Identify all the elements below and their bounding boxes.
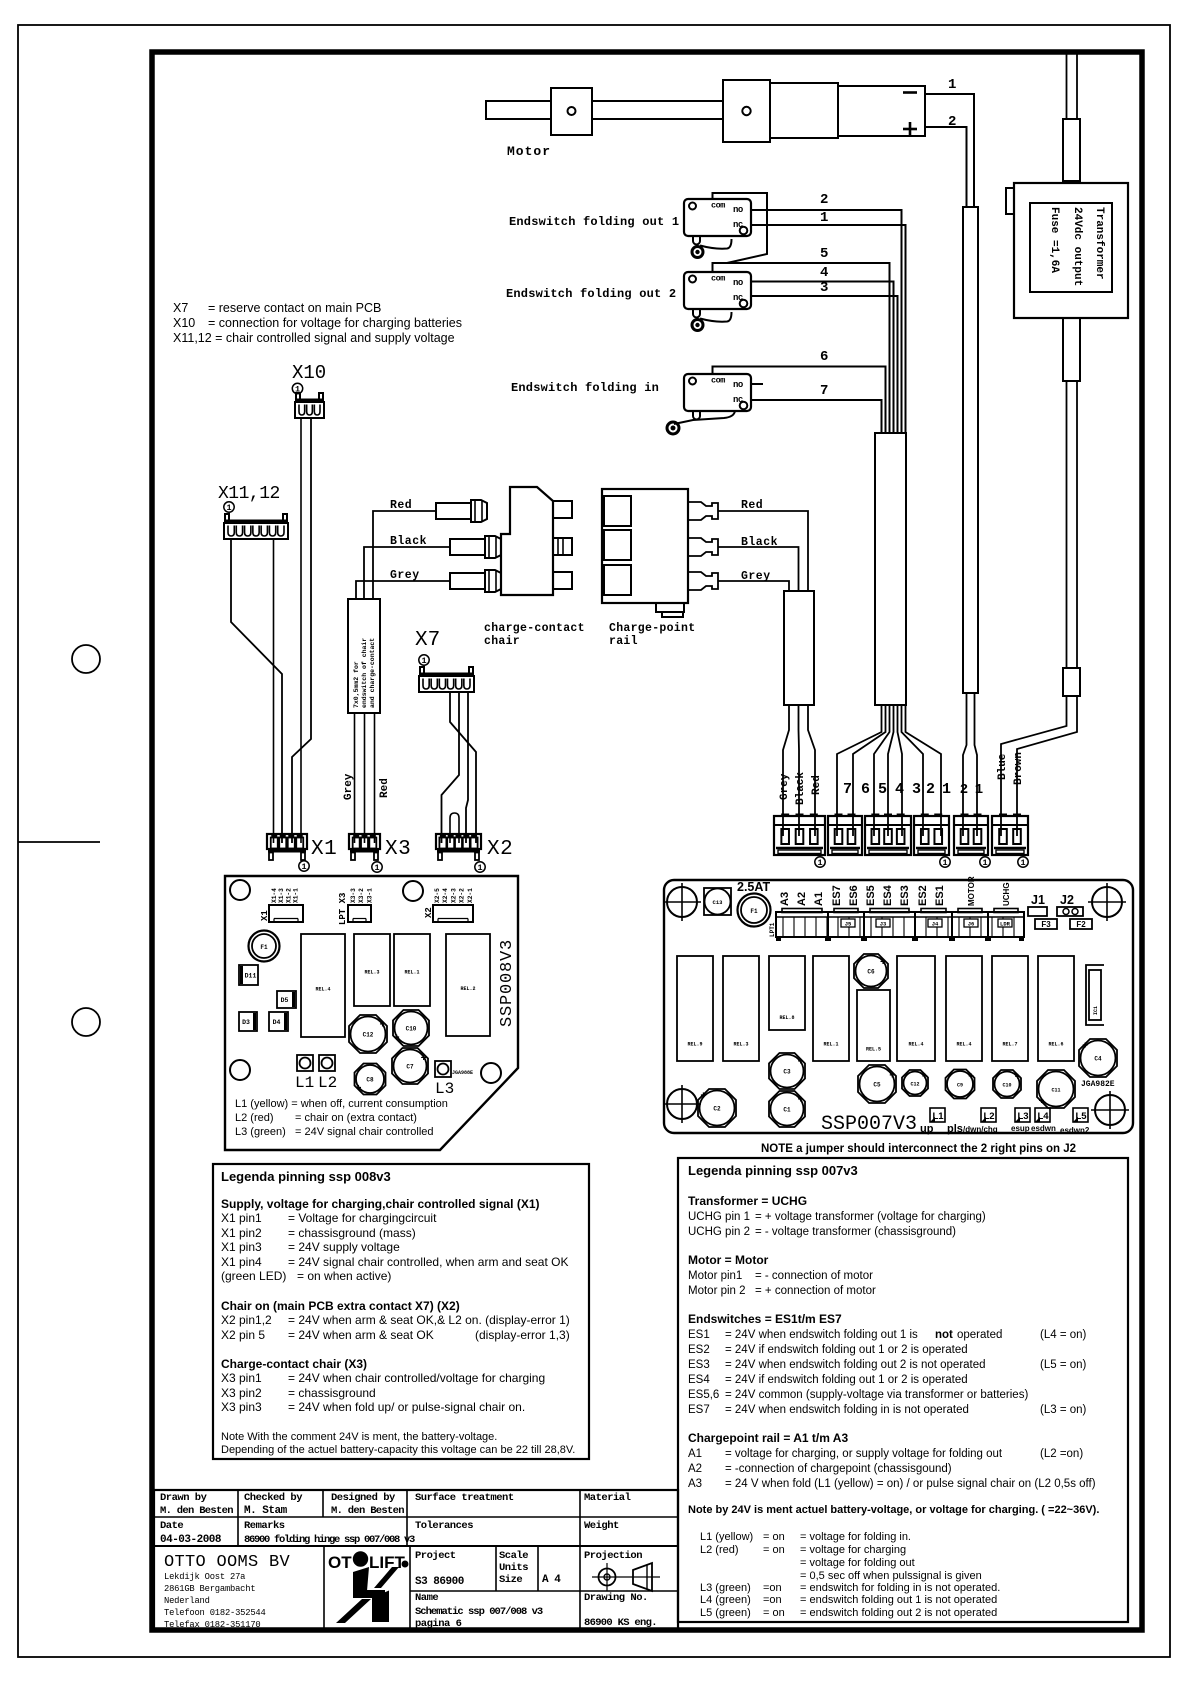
fuse F3 (1035, 919, 1057, 929)
svg-text:Motor: Motor (507, 144, 551, 159)
svg-text:(display-error 1,3): (display-error 1,3) (475, 1328, 570, 1342)
svg-text:Fuse =1,6A: Fuse =1,6A (1048, 207, 1060, 273)
svg-text:+: + (798, 1057, 804, 1068)
svg-text:= 24V when endswitch folding o: = 24V when endswitch folding out 1 is (725, 1329, 918, 1341)
svg-text:A 4: A 4 (542, 1574, 561, 1586)
svg-text:Telefax 0182-351170: Telefax 0182-351170 (164, 1620, 261, 1630)
svg-text:JGA988E: JGA988E (452, 1070, 473, 1076)
connector X2 (436, 834, 481, 849)
svg-text:S3 86900: S3 86900 (415, 1576, 464, 1588)
connector block motor 2 1 (954, 816, 988, 855)
LED L3 (435, 1061, 451, 1077)
svg-text:2.5AT: 2.5AT (737, 880, 770, 894)
svg-text:F2: F2 (1076, 920, 1086, 929)
svg-text:OTTO OOMS BV: OTTO OOMS BV (164, 1553, 291, 1572)
svg-text:= 24 V when fold (L1 (yellow): = 24 V when fold (L1 (yellow) = on) / or… (725, 1478, 1096, 1490)
svg-text:+: + (1082, 1041, 1088, 1052)
terminal strip (776, 912, 1024, 937)
svg-text:M. den Besten: M. den Besten (160, 1505, 233, 1517)
svg-text:X2 pin 5: X2 pin 5 (221, 1328, 265, 1342)
svg-text:Note by 24V is ment actuel ba: Note by 24V is ment actuel battery-volta… (688, 1504, 1099, 1516)
motor shaft middle (592, 101, 723, 119)
svg-text:7: 7 (820, 383, 828, 399)
wire Red to chair (373, 511, 436, 599)
stub endswitch3 no (751, 383, 763, 385)
svg-text:REL.4: REL.4 (908, 1041, 923, 1047)
wire X11,12 pin2 (273, 539, 275, 843)
cable sleeve endswitch bundle (875, 433, 906, 705)
svg-text:L2: L2 (318, 1074, 337, 1092)
relay REL3 pcb2 (723, 956, 759, 1061)
capacitor C2 (698, 1089, 736, 1127)
svg-text:rail: rail (609, 635, 638, 648)
chair plug red (436, 503, 471, 519)
chair plug black (450, 539, 485, 555)
svg-text:1: 1 (421, 656, 426, 666)
connector block Blue Brown (992, 816, 1028, 855)
svg-text:C12: C12 (363, 1032, 374, 1039)
svg-text:1: 1 (477, 863, 482, 873)
svg-text:X2: X2 (487, 838, 513, 861)
svg-text:5: 5 (878, 781, 887, 798)
svg-text:/dwn/chg: /dwn/chg (963, 1125, 998, 1134)
svg-text:Motor pin1: Motor pin1 (688, 1270, 742, 1282)
relay REL3 (354, 934, 390, 1006)
svg-text:MOTOR: MOTOR (967, 876, 976, 906)
motor cable sleeve (963, 207, 978, 693)
svg-text:+: + (889, 1072, 895, 1083)
svg-text:D11: D11 (245, 973, 257, 980)
svg-text:X2: X2 (424, 907, 434, 918)
svg-text:up: up (920, 1123, 934, 1135)
wire Brown (1017, 696, 1077, 836)
svg-text:com: com (711, 201, 725, 211)
svg-text:Date: Date (160, 1520, 183, 1532)
title block row3 dividers (323, 1546, 325, 1630)
svg-text:X1-2: X1-2 (285, 888, 292, 903)
svg-text:REL.3: REL.3 (733, 1041, 748, 1047)
relay REL1 pcb2 (813, 956, 849, 1061)
svg-text:+: + (394, 1034, 400, 1045)
wire rail Grey (718, 581, 789, 591)
svg-text:X3-2: X3-2 (358, 888, 365, 903)
svg-text:Black: Black (795, 772, 807, 805)
svg-text:LPT1: LPT1 (769, 922, 776, 937)
motor block 2 (723, 80, 770, 142)
svg-text:X2-5: X2-5 (434, 888, 441, 903)
svg-text:not: not (935, 1329, 953, 1341)
svg-text:pls: pls (947, 1123, 963, 1135)
svg-text:C12: C12 (910, 1082, 919, 1088)
svg-text:Size: Size (499, 1574, 522, 1586)
capacitor C1 (769, 1091, 805, 1127)
relay REL7 (992, 956, 1028, 1061)
svg-text:= endswitch for folding in is: = endswitch for folding in is not operat… (800, 1582, 1000, 1594)
svg-text:(L4 = on): (L4 = on) (1040, 1329, 1087, 1341)
svg-text:JGA982E: JGA982E (1081, 1080, 1115, 1089)
svg-text:Schematic ssp 007/008 v3: Schematic ssp 007/008 v3 (415, 1606, 543, 1618)
svg-text:LPT X3: LPT X3 (338, 893, 348, 925)
svg-text:= 24V if endswitch folding out: = 24V if endswitch folding out 1 or 2 is… (725, 1344, 968, 1356)
svg-text:2: 2 (820, 192, 828, 208)
relay REL8 (769, 956, 805, 1030)
svg-text:SSP007V3: SSP007V3 (821, 1113, 917, 1136)
svg-text:C7: C7 (406, 1064, 414, 1071)
svg-text:X1 pin2: X1 pin2 (221, 1226, 262, 1240)
svg-text:REL.9: REL.9 (687, 1041, 702, 1047)
svg-text:ES1: ES1 (934, 885, 946, 906)
svg-text:REL.8: REL.8 (779, 1015, 794, 1021)
svg-text:= 24V if endswitch folding out: = 24V if endswitch folding out 1 or 2 is… (725, 1374, 968, 1386)
svg-text:L3 (green): L3 (green) (235, 1126, 286, 1138)
svg-text:REL.4: REL.4 (956, 1041, 971, 1047)
svg-text:Endswitch folding out 2: Endswitch folding out 2 (506, 287, 676, 301)
jumper U on X2 pins 2-3 (450, 813, 459, 843)
diode D4 (269, 1012, 288, 1031)
svg-text:X1-3: X1-3 (278, 888, 285, 903)
capacitor C10 pcb2 (993, 1070, 1021, 1098)
svg-text:J3: J3 (880, 921, 887, 928)
svg-text:esdwn2: esdwn2 (1060, 1126, 1090, 1135)
svg-text:Chair on (main PCB extra conta: Chair on (main PCB extra contact X7) (X2… (221, 1299, 460, 1313)
svg-text:no: no (733, 205, 743, 215)
svg-text:3: 3 (820, 280, 828, 296)
svg-text:and charge-contact: and charge-contact (369, 638, 376, 708)
connector X1 (267, 834, 307, 849)
transformer cable bottom (1063, 318, 1080, 381)
battery (838, 86, 925, 136)
svg-text:REL.1: REL.1 (823, 1041, 838, 1047)
legend box ssp008v3 (213, 1164, 589, 1459)
OTOLIFT logo glyph (353, 1567, 369, 1594)
svg-text:J6: J6 (968, 921, 975, 928)
wire rail Red (718, 511, 808, 591)
svg-text:esdwn: esdwn (1031, 1124, 1056, 1133)
svg-text:X1 pin4: X1 pin4 (221, 1255, 262, 1269)
svg-text:endswitch of chair: endswitch of chair (361, 638, 368, 708)
svg-text:A2: A2 (688, 1463, 702, 1475)
svg-text:+: + (356, 1084, 362, 1095)
svg-text:= voltage for folding out: = voltage for folding out (800, 1557, 915, 1569)
svg-text:6: 6 (820, 349, 828, 365)
svg-text:Drawing No.: Drawing No. (584, 1592, 648, 1604)
svg-text:C10: C10 (1002, 1083, 1011, 1089)
svg-text:= + voltage transformer (volt: = + voltage transformer (voltage for cha… (755, 1211, 986, 1223)
binder hole top (72, 645, 100, 673)
svg-text:= 24V when arm & seat OK,& L2: = 24V when arm & seat OK,& L2 on. (displ… (288, 1313, 570, 1327)
wire 6 endswitch3 com (713, 367, 886, 434)
fuse F1 left PCB (249, 931, 280, 962)
motor body section (770, 83, 838, 138)
capacitor C9 (946, 1070, 975, 1099)
svg-text:= on: = on (763, 1607, 785, 1619)
capacitor C4 (1079, 1039, 1117, 1077)
svg-text:= - voltage transformer (cha: = - voltage transformer (chassisground) (755, 1226, 956, 1238)
svg-text:X3: X3 (385, 838, 411, 861)
svg-text:= on: = on (763, 1531, 785, 1543)
capacitor C12 pcb2 (902, 1070, 928, 1096)
wire motor 2 (925, 127, 967, 207)
capacitor C11 (1037, 1070, 1075, 1108)
svg-text:L5: L5 (1075, 1111, 1087, 1122)
svg-text:=on: =on (763, 1582, 782, 1594)
svg-text:X2-3: X2-3 (450, 888, 457, 903)
svg-text:Depending of the actuel batter: Depending of the actuel battery-capacity… (221, 1444, 575, 1456)
svg-text:X1 pin1: X1 pin1 (221, 1211, 262, 1225)
PCB SSP008V3 outline (225, 876, 518, 1150)
svg-text:= 24V signal chair controlled,: = 24V signal chair controlled, when arm … (288, 1255, 569, 1269)
svg-text:Checked by: Checked by (244, 1492, 303, 1504)
svg-text:= - connection of motor: = - connection of motor (755, 1270, 873, 1282)
svg-text:UCHG pin 1: UCHG pin 1 (688, 1211, 750, 1223)
svg-text:X1: X1 (260, 910, 270, 921)
svg-text:L1 (yellow) = when off, curre: L1 (yellow) = when off, current consumpt… (235, 1098, 448, 1110)
svg-text:L1 (yellow): L1 (yellow) (700, 1531, 753, 1543)
wire 4 endswitch2 no (751, 282, 894, 434)
svg-text:C5: C5 (873, 1082, 881, 1089)
relay REL4 (301, 934, 345, 1037)
svg-text:X10: X10 (173, 316, 195, 330)
transformer cable top (1066, 54, 1068, 119)
svg-text:+: + (1039, 1097, 1045, 1108)
svg-text:X2-1: X2-1 (467, 888, 474, 903)
svg-text:Chargepoint rail = A1 t/m A3: Chargepoint rail = A1 t/m A3 (688, 1431, 848, 1445)
svg-text:+: + (922, 1072, 928, 1083)
svg-text:ES2: ES2 (688, 1344, 710, 1356)
svg-text:X7: X7 (415, 629, 440, 652)
svg-text:REL.7: REL.7 (1002, 1041, 1017, 1047)
svg-text:com: com (711, 274, 725, 284)
svg-text:= 24V when chair controlled/vo: = 24V when chair controlled/voltage for … (288, 1371, 545, 1385)
svg-text:A1: A1 (688, 1448, 702, 1460)
svg-text:M. den Besten: M. den Besten (331, 1505, 404, 1517)
svg-text:+: + (421, 1054, 427, 1065)
svg-text:F1: F1 (750, 908, 758, 915)
svg-text:= 0,5 sec off when pulssignal: = 0,5 sec off when pulssignal is given (800, 1570, 982, 1582)
svg-text:charge-contact: charge-contact (484, 622, 585, 635)
connector X3 (349, 834, 380, 849)
terminal strip group lips (782, 909, 822, 913)
svg-text:Red: Red (379, 778, 391, 798)
svg-text:X2-2: X2-2 (459, 888, 466, 903)
svg-text:pagina 6: pagina 6 (415, 1618, 462, 1630)
connector block Grey/Black/Red (774, 816, 825, 855)
wire rail Black (718, 547, 799, 591)
svg-text:REL.2: REL.2 (460, 986, 475, 992)
svg-text:L2 (red): L2 (red) (235, 1112, 274, 1124)
svg-text:A2: A2 (796, 892, 808, 906)
capacitor C5 (858, 1065, 896, 1103)
svg-text:X1: X1 (311, 838, 337, 861)
svg-text:X2 pin1,2: X2 pin1,2 (221, 1313, 272, 1327)
svg-text:2: 2 (960, 782, 968, 798)
svg-text:A3: A3 (779, 892, 791, 906)
svg-text:1: 1 (301, 862, 306, 872)
svg-text:1: 1 (1020, 858, 1025, 868)
svg-text:= voltage for charging: = voltage for charging (800, 1544, 906, 1556)
svg-text:Legenda pinning ssp 008v3: Legenda pinning ssp 008v3 (221, 1169, 391, 1184)
svg-text:Transformer = UCHG: Transformer = UCHG (688, 1194, 807, 1208)
svg-text:D5: D5 (281, 997, 289, 1004)
svg-text:LDR: LDR (1000, 921, 1011, 928)
svg-text:04-03-2008: 04-03-2008 (160, 1534, 222, 1546)
svg-text:J2: J2 (1060, 893, 1074, 907)
svg-text:D4: D4 (273, 1019, 281, 1026)
header X1 on PCB (269, 905, 303, 922)
svg-text:Grey: Grey (343, 773, 355, 800)
diode D11 (239, 965, 258, 985)
relay REL4 pcb2 (897, 956, 935, 1061)
svg-text:Grey: Grey (779, 773, 791, 800)
svg-text:Grey: Grey (390, 569, 420, 582)
svg-text:1: 1 (942, 781, 951, 798)
svg-text:REL.4: REL.4 (315, 987, 330, 993)
svg-text:Supply, voltage for charging,c: Supply, voltage for charging,chair contr… (221, 1197, 540, 1211)
svg-text:Red: Red (741, 499, 763, 512)
svg-text:+: + (798, 1095, 804, 1106)
svg-text:= voltage for charging, or sup: = voltage for charging, or supply voltag… (725, 1448, 1003, 1460)
svg-text:X1 pin3: X1 pin3 (221, 1240, 262, 1254)
svg-text:= 24V when endswitch folding o: = 24V when endswitch folding out 2 is no… (725, 1359, 986, 1371)
svg-text:= chair on (extra contact): = chair on (extra contact) (295, 1112, 417, 1124)
svg-text:X3-3: X3-3 (350, 888, 357, 903)
inner drawing border (152, 52, 1142, 1630)
svg-text:(L2 =on): (L2 =on) (1040, 1448, 1083, 1460)
svg-text:ES4: ES4 (688, 1374, 710, 1386)
svg-text:Project: Project (415, 1550, 456, 1562)
charge-point rail body (602, 489, 688, 603)
svg-text:= 24V when endswitch folding i: = 24V when endswitch folding in is not o… (725, 1404, 969, 1416)
svg-text:chair: chair (484, 635, 520, 648)
wire X10 pin2 (292, 418, 311, 843)
svg-text:C11: C11 (1051, 1088, 1060, 1094)
svg-text:L2: L2 (983, 1111, 994, 1122)
svg-text:+: + (700, 1091, 706, 1102)
svg-text:operated: operated (957, 1329, 1002, 1341)
svg-text:=on: =on (763, 1594, 782, 1606)
capacitor C8 (355, 1064, 386, 1095)
header X2 on PCB (433, 905, 473, 922)
endswitch folding out 2 (684, 272, 751, 309)
svg-text:Motor pin 2: Motor pin 2 (688, 1285, 746, 1297)
svg-text:Grey: Grey (741, 570, 771, 583)
svg-text:C10: C10 (406, 1026, 417, 1033)
svg-text:L3: L3 (1017, 1111, 1028, 1122)
connector block 7 6 (828, 816, 862, 855)
svg-text:(L3 = on): (L3 = on) (1040, 1404, 1087, 1416)
svg-text:Lekdijk Oost 27a: Lekdijk Oost 27a (164, 1572, 245, 1582)
svg-text:no: no (733, 278, 743, 288)
svg-text:L4: L4 (1037, 1111, 1049, 1122)
wire 2 endswitch1 no (751, 210, 902, 433)
svg-text:OT: OT (328, 1553, 352, 1572)
bundle wires below sleeve (837, 705, 882, 836)
svg-text:6: 6 (861, 781, 870, 798)
svg-text:ES1: ES1 (688, 1329, 710, 1341)
svg-text:= 24V when fold up/ or pulse-s: = 24V when fold up/ or pulse-signal chai… (288, 1400, 525, 1414)
svg-text:C4: C4 (1094, 1056, 1102, 1063)
svg-text:1: 1 (374, 863, 379, 873)
LED L2 (319, 1055, 335, 1071)
wires cable box to X3 (354, 713, 356, 843)
wire Black to chair (364, 547, 450, 599)
svg-text:Charge-contact chair (X3): Charge-contact chair (X3) (221, 1357, 367, 1371)
svg-text:Tolerances: Tolerances (415, 1520, 473, 1532)
svg-text:= voltage for folding in.: = voltage for folding in. (800, 1531, 911, 1543)
svg-text:Black: Black (390, 535, 427, 548)
capacitor C3 (769, 1053, 805, 1089)
mount hole PCB2 top-left (667, 887, 697, 917)
svg-text:1: 1 (982, 858, 987, 868)
svg-text:X10: X10 (292, 362, 326, 384)
svg-text:L3: L3 (435, 1080, 454, 1098)
rail cable sleeve (784, 591, 814, 705)
wire X7 to X2 pin1 (442, 692, 460, 843)
svg-text:com: com (711, 376, 725, 386)
svg-text:Units: Units (499, 1562, 528, 1574)
svg-text:= endswitch folding out 1 is n: = endswitch folding out 1 is not operate… (800, 1594, 997, 1606)
fuse F1 2.5AT (738, 894, 771, 927)
header X3 on PCB (348, 905, 371, 922)
svg-text:2861GB Bergambacht: 2861GB Bergambacht (164, 1584, 255, 1594)
wire X11,12 pin1 (231, 539, 282, 843)
svg-text:no: no (733, 380, 743, 390)
wire 5 common endswitches (713, 263, 890, 433)
capacitor C7 (392, 1048, 428, 1084)
svg-text:L3 (green): L3 (green) (700, 1582, 751, 1594)
svg-text:1: 1 (817, 858, 822, 868)
svg-text:X11,12 = chair controlled sign: X11,12 = chair controlled signal and sup… (173, 331, 455, 345)
svg-text:Note With the comment 24V is: Note With the comment 24V is ment, the b… (221, 1431, 497, 1443)
svg-text:M. Stam: M. Stam (244, 1505, 288, 1517)
LED L1 (297, 1055, 313, 1071)
mount hole bottom-right (481, 1063, 501, 1083)
cable box 7x0,5mm2 (348, 599, 380, 713)
svg-text:= chassisground: = chassisground (288, 1386, 376, 1400)
svg-text:= 24V supply voltage: = 24V supply voltage (288, 1240, 400, 1254)
svg-text:Red: Red (811, 775, 823, 795)
svg-text:D3: D3 (242, 1019, 250, 1026)
wire X7 to X2 pin4 (466, 692, 468, 843)
chair plug grey (450, 573, 485, 589)
svg-text:Black: Black (741, 536, 778, 549)
svg-text:1: 1 (226, 503, 231, 513)
svg-text:+: + (379, 1021, 385, 1032)
svg-text:7: 7 (843, 781, 852, 798)
mount hole top-left (230, 880, 250, 900)
connector block 2 1 (914, 816, 949, 855)
chair stub contacts (553, 501, 572, 518)
svg-text:F1: F1 (260, 944, 268, 951)
svg-text:Blue: Blue (997, 753, 1009, 780)
svg-text:4: 4 (820, 265, 828, 281)
svg-text:ES2: ES2 (917, 885, 929, 906)
fold mark (18, 841, 100, 843)
PCB SSP007V3 outline (664, 880, 1133, 1133)
svg-text:C2: C2 (713, 1106, 721, 1113)
relay REL6 (1038, 956, 1074, 1061)
motor wires below sleeve (963, 693, 967, 836)
svg-text:Designed by: Designed by (331, 1492, 396, 1504)
mount hole PCB2 top-right (1092, 887, 1122, 917)
svg-text:C13: C13 (713, 899, 724, 906)
svg-text:2: 2 (948, 114, 956, 130)
capacitor C6 pcb2 (854, 954, 888, 988)
svg-text:4: 4 (895, 781, 904, 798)
mount hole PCB2 bottom-left (667, 1089, 697, 1119)
svg-text:REL.6: REL.6 (1048, 1041, 1063, 1047)
svg-text:= -connection of chargepoint (: = -connection of chargepoint (chassisgou… (725, 1463, 952, 1475)
